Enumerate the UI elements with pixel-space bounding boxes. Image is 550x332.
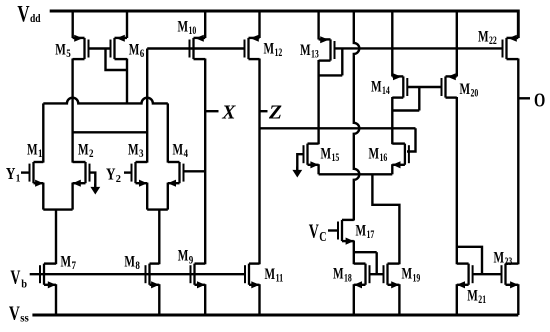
svg-text:18: 18 [344,272,352,284]
svg-text:M: M [265,266,276,283]
svg-text:4: 4 [184,148,189,160]
svg-text:1: 1 [16,173,21,185]
svg-text:b: b [21,277,27,291]
svg-text:7: 7 [72,260,77,272]
svg-text:M: M [27,142,38,159]
svg-text:19: 19 [413,272,421,284]
svg-text:Y: Y [6,164,16,183]
svg-text:M: M [173,142,184,159]
svg-text:23: 23 [505,256,513,268]
svg-text:14: 14 [382,85,390,97]
svg-text:M: M [178,19,189,36]
svg-text:20: 20 [471,88,479,100]
svg-text:V: V [9,303,20,325]
svg-text:V: V [17,2,29,27]
svg-text:1: 1 [38,148,43,160]
svg-text:Y: Y [106,164,116,183]
svg-text:V: V [309,221,319,243]
svg-text:2: 2 [89,148,94,160]
svg-text:22: 22 [489,35,497,47]
svg-text:M: M [478,29,489,46]
svg-text:M: M [61,253,72,270]
svg-text:O: O [534,89,545,111]
svg-text:M: M [402,266,413,283]
svg-text:M: M [128,142,139,159]
svg-text:M: M [178,248,189,265]
svg-text:5: 5 [66,48,71,60]
svg-text:8: 8 [135,260,140,272]
svg-text:M: M [264,41,275,58]
svg-text:M: M [300,42,311,59]
svg-text:21: 21 [478,294,486,306]
svg-text:M: M [356,223,367,240]
svg-text:M: M [129,41,140,58]
svg-text:ss: ss [20,311,29,325]
svg-text:17: 17 [367,229,375,241]
svg-text:M: M [333,266,344,283]
svg-text:X: X [221,101,236,123]
svg-text:M: M [78,142,89,159]
svg-text:V: V [10,267,20,289]
svg-text:9: 9 [189,254,194,266]
svg-text:M: M [124,253,135,270]
svg-text:13: 13 [311,49,319,61]
svg-text:10: 10 [189,25,197,37]
svg-text:M: M [55,41,66,58]
svg-text:dd: dd [30,11,41,25]
svg-text:C: C [319,230,326,245]
svg-text:15: 15 [332,152,340,164]
svg-text:M: M [321,146,332,163]
svg-text:12: 12 [275,47,283,59]
svg-text:11: 11 [276,273,284,285]
svg-text:M: M [467,288,478,305]
svg-text:M: M [494,250,505,267]
svg-text:M: M [460,81,471,98]
svg-text:Z: Z [268,101,282,123]
svg-text:3: 3 [139,148,144,160]
svg-text:6: 6 [140,48,145,60]
svg-text:M: M [371,79,382,96]
svg-text:M: M [369,146,380,163]
svg-text:2: 2 [116,173,122,185]
svg-text:16: 16 [380,152,388,164]
